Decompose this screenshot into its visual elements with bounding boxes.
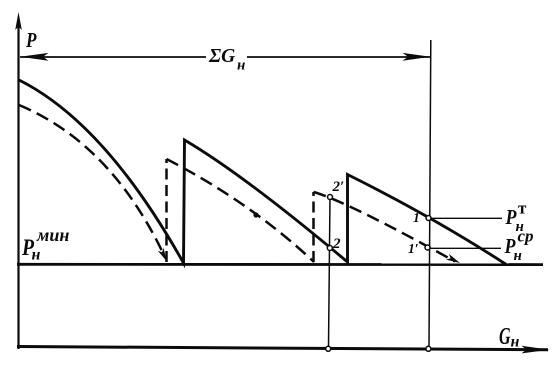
svg-text:G: G bbox=[499, 324, 511, 350]
svg-text:н: н bbox=[32, 247, 41, 264]
dashed vertical 2 bbox=[165, 159, 168, 262]
label sum GH bbox=[208, 46, 245, 74]
point 1' bbox=[425, 245, 430, 250]
svg-text:2: 2 bbox=[332, 236, 341, 252]
svg-text:ΣG: ΣG bbox=[208, 46, 235, 67]
arrowhead dashed curve 1 bbox=[158, 248, 167, 261]
svg-text:н: н bbox=[237, 58, 245, 74]
point 2 bbox=[327, 246, 332, 251]
svg-text:P: P bbox=[25, 28, 36, 52]
point 2' bbox=[328, 195, 333, 200]
dashed vertical 3 bbox=[312, 192, 315, 262]
circle at x-axis left bbox=[326, 346, 331, 351]
svg-text:1′: 1′ bbox=[408, 241, 419, 256]
circle at x-axis right bbox=[426, 346, 431, 351]
svg-text:2′: 2′ bbox=[332, 179, 345, 195]
point 1 bbox=[426, 216, 431, 221]
svg-text:1: 1 bbox=[413, 210, 420, 225]
label P n t bbox=[505, 199, 527, 236]
svg-text:мин: мин bbox=[36, 225, 69, 245]
leader line P t bbox=[431, 217, 502, 219]
solid sawtooth curve bbox=[19, 80, 507, 265]
vertical line at total flow bbox=[429, 40, 431, 347]
marker dot on dashed curve 2 bbox=[253, 212, 258, 217]
svg-text:н: н bbox=[511, 334, 520, 351]
dashed curve 3 bbox=[314, 192, 456, 262]
svg-text:ср: ср bbox=[518, 227, 534, 246]
dashed curve 2 bbox=[167, 159, 315, 262]
svg-text:т: т bbox=[518, 199, 527, 218]
dimension arrow sum GH bbox=[20, 53, 431, 61]
dashed curve 1 bbox=[19, 105, 163, 253]
label GH x-axis bbox=[499, 324, 520, 351]
arrowhead dashed curve 3 bbox=[446, 254, 460, 263]
x-axis GH bbox=[17, 346, 550, 354]
leader line P sr bbox=[430, 247, 501, 249]
thin vertical through points 2 bbox=[329, 197, 331, 347]
label P n sr bbox=[504, 227, 534, 265]
label P n min bbox=[21, 225, 69, 264]
y-axis P bbox=[15, 12, 22, 349]
baseline P min bbox=[17, 263, 543, 266]
svg-text:н: н bbox=[514, 248, 522, 264]
